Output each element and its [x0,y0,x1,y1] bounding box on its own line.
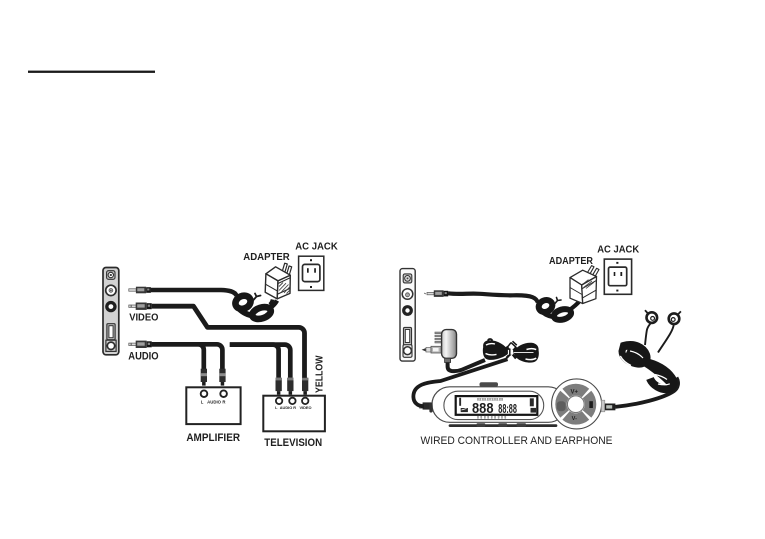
VIDEO plug [129,303,152,310]
wire: DC cable to adapter tangle [151,290,237,296]
horizontal rule top-left [28,71,155,73]
top clip tab [480,382,499,387]
svg-text:AUDIO: AUDIO [207,400,222,405]
svg-text:8 8 8 8 8 8 8 8 8: 8 8 8 8 8 8 8 8 8 [477,415,507,419]
earphone plug on controller right [601,400,615,412]
AUDIO plug [129,341,152,348]
adapter cord tangle (right) [537,298,579,322]
svg-text:88:88: 88:88 [498,401,517,416]
wires: audio cables to amplifier [152,344,204,369]
svg-text:VIDEO: VIDEO [299,405,311,410]
DC plug (right diagram) [424,290,448,297]
controller cord plug [420,402,432,409]
right earbud [669,311,681,324]
adapter cord tangle (left) [233,293,277,321]
left earbud [645,310,657,323]
svg-text:WIRED CONTROLLER AND EARPHONE: WIRED CONTROLLER AND EARPHONE [421,435,613,447]
svg-text:YELLOW: YELLOW [315,355,326,393]
svg-text:V-: V- [572,416,577,422]
AC adapter 3D box (left) [265,263,292,299]
svg-text:ADAPTER: ADAPTER [243,252,290,263]
wire: charger cord to bundle [448,360,485,371]
svg-text:L: L [201,400,204,405]
svg-text:ADAPTER: ADAPTER [549,256,593,267]
bottom thick edge [450,424,556,427]
earphone cord knot [620,344,673,389]
AC JACK outlet (left) [299,256,324,290]
RCA plugs above television [276,378,309,395]
wall-wart charger (right diagram) [422,330,457,363]
svg-text:AUDIO: AUDIO [128,351,158,363]
adapter cord stub [270,300,273,305]
svg-text:AC JACK: AC JACK [295,242,338,253]
device panel (right diagram) [400,269,415,362]
vent hatching on adapter right face [279,283,290,294]
AMPLIFIER box [186,387,240,424]
RCA plugs above amplifier [201,369,226,386]
wires: audio cables to television [230,345,279,378]
TELEVISION box [263,396,325,432]
wire: earphone cable up to knot [615,378,678,407]
left nub [429,403,432,413]
svg-text:VIDEO: VIDEO [129,312,158,323]
svg-text:TELEVISION: TELEVISION [264,437,322,449]
control pad outer circle [552,379,602,429]
DC plug (top, to adapter cable) [129,287,151,294]
svg-text:R: R [293,405,296,410]
svg-text:AMPLIFIER: AMPLIFIER [186,432,240,444]
wire: right earbud lead [658,324,674,352]
cord bundle bow (right diagram) [483,339,539,363]
wired controller body [429,379,601,429]
AC JACK outlet (right) [604,259,631,294]
device panel (left diagram) [103,268,119,355]
AC adapter 3D box (right) [570,266,599,304]
wire: DC cable to adapter tangle (right) [448,293,538,302]
svg-text:V+: V+ [571,389,579,395]
svg-text:AUDIO: AUDIO [280,405,293,410]
bottom buttons [477,423,486,427]
wire: left earbud lead [645,323,651,345]
wire: controller cord to bundle [413,359,507,406]
control pad cross buttons [555,384,596,425]
inner rounded frame [444,391,544,419]
wire: video cable to TV [152,306,305,378]
LCD display [456,396,538,415]
svg-text:AC JACK: AC JACK [597,244,640,255]
